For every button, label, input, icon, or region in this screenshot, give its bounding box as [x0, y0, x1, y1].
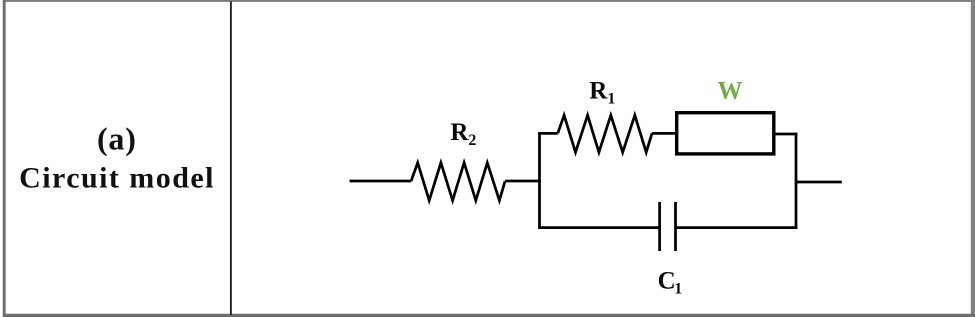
- node right vertical: [795, 133, 798, 229]
- capacitor C1 right plate: [674, 202, 677, 251]
- svg-text:W: W: [718, 77, 743, 104]
- node left vertical: [538, 132, 541, 229]
- wire R1 to W: [652, 132, 676, 135]
- table frame top: [3, 0, 975, 2]
- wire bottom-right: [676, 226, 798, 229]
- table frame right: [971, 0, 975, 317]
- svg-text:(a): (a): [97, 121, 137, 157]
- cell divider: [230, 2, 232, 316]
- svg-text:R: R: [589, 77, 608, 104]
- table frame left: [3, 0, 6, 317]
- capacitor C1 left plate: [658, 202, 661, 251]
- svg-text:1: 1: [607, 90, 615, 107]
- svg-text:C: C: [658, 267, 676, 294]
- wire W to right node: [775, 133, 797, 136]
- svg-text:1: 1: [674, 280, 682, 297]
- table frame bottom: [3, 314, 975, 317]
- resistor R1: [558, 115, 652, 152]
- wire top-left stub: [538, 132, 558, 135]
- resistor R2: [411, 163, 505, 201]
- svg-text:2: 2: [468, 132, 476, 149]
- Warburg element W box: [677, 113, 774, 154]
- wire bottom-left: [538, 226, 660, 229]
- wire input: [350, 180, 411, 183]
- wire R2 to node: [505, 180, 541, 183]
- wire output: [796, 181, 842, 184]
- svg-text:Circuit model: Circuit model: [19, 162, 215, 195]
- svg-text:R: R: [450, 119, 469, 146]
